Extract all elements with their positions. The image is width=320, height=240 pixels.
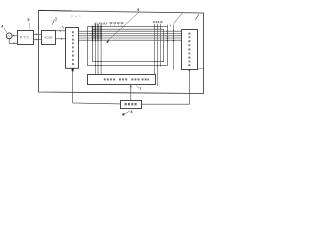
right driver box (vertical text) (182, 30, 198, 70)
right column electrode lines (154, 24, 173, 86)
tick (59, 30, 62, 32)
svg-text:A1: A1 (94, 21, 98, 25)
svg-text:AC/DC: AC/DC (44, 35, 52, 39)
junction dots right cluster (154, 26, 174, 66)
label leader above AC/DC box (52, 19, 54, 24)
wire right driver bottom to controller (142, 70, 190, 105)
label 1 top right corner leader (195, 14, 198, 20)
leader toward driver box (62, 26, 64, 28)
node labels 10-13 (109, 21, 124, 25)
leader to PTC box (29, 22, 30, 30)
svg-text:A2: A2 (99, 21, 103, 25)
darker segment of top border (38, 9, 72, 12)
faint marks above driver box (71, 15, 73, 18)
wire AC/DC to driver bottom (56, 38, 66, 40)
label 7 below wide box (136, 85, 139, 88)
controller box (121, 101, 142, 109)
wire AC bottom to PTC (9, 39, 17, 44)
svg-text:13: 13 (159, 20, 163, 24)
leader from top border to right column group (174, 13, 183, 24)
dark upper segments of left cluster verticals (93, 25, 102, 42)
ticks from labels to bus (111, 24, 122, 26)
wire PTC to AC/DC top (33, 33, 42, 35)
box PTC (18, 31, 34, 45)
wire wide box to controller with up arrow (130, 85, 132, 101)
outer enclosure boundary 1 (39, 11, 204, 94)
tick on wire (12, 35, 15, 37)
svg-text:A3: A3 (103, 21, 107, 25)
left driver box (vertical text) (66, 28, 79, 69)
tick (35, 33, 38, 35)
wire AC/DC to driver top (56, 30, 66, 32)
box AC/DC converter 2 (42, 31, 56, 45)
wire PTC to AC/DC bottom (33, 39, 42, 41)
wire from driver bottom to controller (73, 68, 121, 104)
svg-text:9: 9 (137, 8, 139, 12)
left column electrode lines (95, 24, 101, 75)
matrix wires w1-w5 (79, 31, 182, 40)
AC source generator circle (6, 33, 12, 39)
svg-text:7: 7 (139, 87, 141, 91)
svg-text:13: 13 (120, 21, 124, 25)
border jog to right driver box bottom (197, 68, 203, 70)
node labels A1 A2 A3 (94, 21, 107, 25)
svg-text:PTC: PTC (20, 36, 30, 40)
junction dot (72, 68, 74, 71)
svg-text:8: 8 (131, 110, 133, 114)
vertical text blobs (72, 31, 74, 65)
label 8 below controller with dot leader (122, 113, 124, 115)
tick (35, 39, 38, 41)
leader to AC source (4, 28, 7, 33)
label 7 tick above (54, 17, 57, 21)
text blobs inside wide box (104, 78, 149, 80)
junction dots left cluster (91, 26, 102, 39)
junction dot (189, 70, 191, 72)
node labels 11 12 13 right (153, 20, 163, 24)
panel outer rectangle R1 (88, 27, 168, 66)
tick (60, 38, 63, 40)
panel inner rectangle R2 (93, 29, 164, 61)
wire AC top to PTC (12, 35, 17, 37)
svg-text:5: 5 (27, 18, 29, 22)
tick on wire (12, 42, 15, 44)
memory circuit wide box (88, 75, 156, 85)
